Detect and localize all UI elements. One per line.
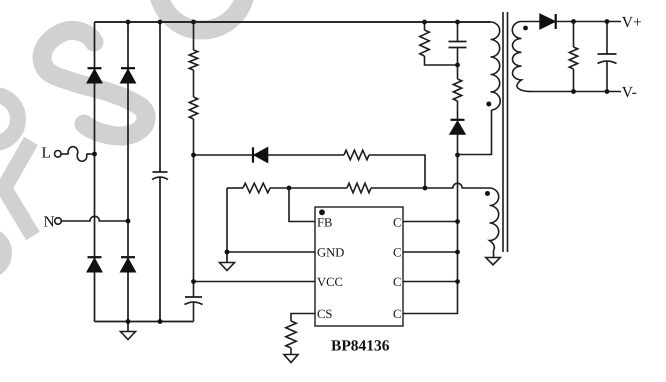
svg-text:N: N <box>44 214 55 231</box>
svg-text:VCC: VCC <box>317 275 343 289</box>
node row2 FB tap <box>287 186 292 191</box>
svg-text:C: C <box>393 246 401 260</box>
wire left bridge branch 2 <box>127 22 129 322</box>
wire top rail <box>95 21 491 23</box>
diode D1 (bridge top) <box>87 68 102 83</box>
terminal N <box>44 214 129 231</box>
node drain junction pin7 <box>455 250 460 255</box>
wire row2 left <box>227 187 243 189</box>
node secondary phase dot <box>523 26 528 31</box>
node rail junction snubber R <box>422 20 427 25</box>
resistor divider lower <box>189 70 197 282</box>
node rail junction divider <box>191 20 196 25</box>
wire C stub pin5 <box>403 282 458 314</box>
svg-text:C: C <box>393 275 401 289</box>
ground GND pin <box>220 252 235 271</box>
capacitor snubber C <box>449 22 467 65</box>
watermark <box>0 0 246 273</box>
svg-text:FB: FB <box>317 216 332 230</box>
node GND junction <box>225 250 230 255</box>
terminal L <box>42 145 95 162</box>
wire C stub pin6 <box>403 281 458 283</box>
resistor CS <box>286 321 296 348</box>
resistor row1 <box>344 150 369 160</box>
resistor divider upper <box>189 22 197 70</box>
wire GND net <box>226 188 228 252</box>
resistor snubber R <box>420 22 458 65</box>
diode D3 (bridge bottom) <box>87 257 102 272</box>
svg-text:V-: V- <box>622 84 637 101</box>
resistor output load <box>569 22 577 92</box>
node rail junction snubber C <box>455 20 460 25</box>
capacitor bus electrolytic <box>152 22 168 322</box>
node drain top junction <box>455 153 460 158</box>
node row1 tap <box>191 153 196 158</box>
node bottom rail junction bus cap <box>158 319 163 324</box>
wire output bottom <box>530 91 621 93</box>
wire left bridge branch 1 <box>94 22 96 322</box>
transformer T1 secondary <box>512 22 540 92</box>
resistor row2 a <box>243 183 270 193</box>
diode D2 (bridge top) <box>120 68 135 83</box>
wire bottom rail <box>95 321 194 323</box>
wire CS net <box>291 314 315 322</box>
node VCC junction <box>191 279 196 284</box>
transformer T1 aux winding <box>490 188 499 258</box>
wire FB net <box>289 188 315 222</box>
node aux phase dot <box>485 191 490 196</box>
svg-text:V+: V+ <box>622 14 642 31</box>
svg-text:BP84136: BP84136 <box>331 338 390 355</box>
wire C stub pin8 <box>403 221 458 223</box>
ground aux <box>486 258 500 265</box>
node pin1 mark <box>319 209 325 215</box>
ground main <box>121 322 136 340</box>
wire row1 <box>194 154 345 156</box>
ground CS <box>284 348 298 363</box>
diode snubber D6 <box>450 120 466 155</box>
wire row2 right with hop <box>371 183 490 188</box>
node L junction <box>92 152 97 157</box>
node drain junction pin6 <box>455 279 460 284</box>
transformer core <box>502 12 504 252</box>
node snubber junction <box>455 63 460 68</box>
node output R top <box>571 19 576 24</box>
node bottom rail junction ground <box>126 319 131 324</box>
svg-text:GND: GND <box>317 246 344 260</box>
svg-text:C: C <box>393 307 401 321</box>
transformer T1 primary <box>95 22 501 110</box>
node output R bottom <box>571 89 576 94</box>
resistor snubber lower <box>453 65 461 120</box>
wire VCC net <box>194 281 316 283</box>
node drain junction pin8 <box>455 219 460 224</box>
node output C bottom <box>605 89 610 94</box>
diode D5 row1 <box>253 147 268 162</box>
diode D7 output <box>540 14 556 29</box>
node rail junction D2 <box>126 20 131 25</box>
wire drain vertical <box>457 155 459 282</box>
node primary phase dot <box>486 102 491 107</box>
wire output top <box>556 21 622 23</box>
capacitor output <box>598 22 617 92</box>
resistor row2 b <box>347 183 371 193</box>
svg-text:C: C <box>393 216 401 230</box>
node rail junction bus cap <box>158 20 163 25</box>
diode D4 (bridge bottom) <box>120 257 135 272</box>
node output C top <box>605 19 610 24</box>
svg-text:L: L <box>42 145 51 162</box>
node row2 right junction <box>423 186 428 191</box>
wire C stub pin7 <box>403 251 458 253</box>
svg-text:CS: CS <box>317 307 332 321</box>
wire row2 mid <box>270 187 347 189</box>
node N junction <box>126 219 131 224</box>
op-amp U1 BP84136 box <box>315 207 403 326</box>
capacitor VCC <box>185 282 203 322</box>
